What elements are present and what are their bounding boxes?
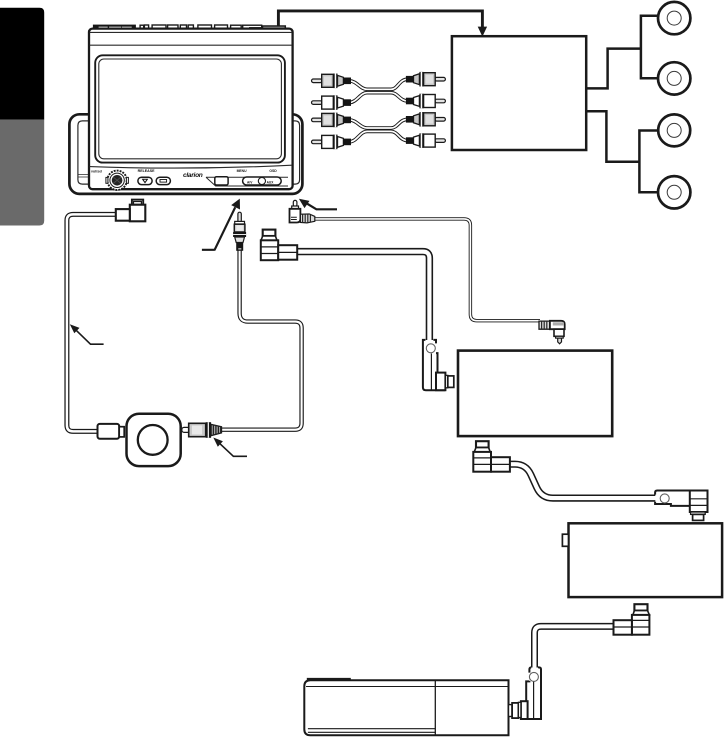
remote eye cable left (67, 214, 117, 431)
sleeve inner line right ear (292, 121, 300, 184)
head unit top cap lines (90, 32, 292, 45)
vesa connector at box4 (518, 667, 541, 719)
box3 left tab (562, 534, 568, 546)
head unit top inner rect detail (250, 28, 261, 31)
aux cable remote to head unit (220, 249, 302, 430)
RCA cable pair 1 wires (349, 79, 408, 102)
wire head-unit to amplifier (278, 11, 482, 28)
right panel outline (206, 177, 288, 186)
speaker rear-right (658, 176, 690, 208)
hideaway box4 (304, 679, 508, 735)
arrow to ccd input (299, 199, 337, 210)
connector ccd-plug top (116, 200, 146, 222)
camera right-angle mini plug (539, 321, 565, 344)
cable mini-plug to camera-plug (315, 219, 541, 321)
remote unit left plug (98, 424, 125, 439)
cenet plug near head unit (261, 230, 297, 261)
RCA plug L3 gray (312, 113, 352, 128)
RCA plug R3 gray (406, 112, 446, 127)
remote unit right rca plug (182, 422, 222, 438)
screen bezel (95, 55, 285, 162)
amplifier box (452, 36, 586, 150)
cenet cable head unit to box2 (296, 252, 429, 341)
RCA plug L1 gray (312, 74, 352, 89)
mounting sleeve (69, 114, 302, 194)
arrow to remote cable (70, 324, 104, 344)
volume knob (106, 171, 128, 190)
arrow to aux input (202, 199, 240, 251)
cenet plug below box3 (614, 604, 650, 635)
head unit top button row (140, 25, 262, 29)
svg-text:vol/sel: vol/sel (91, 170, 102, 174)
speaker wire rear pair (585, 111, 658, 192)
svg-text:RELEASE: RELEASE (138, 169, 156, 173)
svg-text:AUX: AUX (267, 180, 275, 184)
page tab gray (0, 120, 44, 226)
tv tuner box2 (458, 351, 612, 437)
speaker rear-left (658, 114, 690, 146)
button av-aux (243, 177, 282, 185)
head unit top right gray block (263, 26, 286, 31)
mini plug vertical (290, 200, 315, 223)
sleeve inner line left ear (78, 121, 90, 184)
cable box2 to box3 (510, 464, 657, 498)
page tab black (0, 8, 44, 120)
screen inner (99, 59, 282, 159)
control bar arc (90, 165, 292, 168)
speaker front-right (658, 62, 690, 94)
RCA plug R2 white (406, 94, 446, 109)
head unit top buttons block left (93, 25, 136, 31)
cable box4 to box3 (535, 626, 615, 667)
svg-text:OSD: OSD (269, 169, 277, 173)
RCA cable pair 2 wires (349, 119, 408, 142)
button tilt (156, 177, 170, 184)
RCA plug R4 white (406, 133, 446, 148)
button source (215, 177, 228, 185)
RCA plug L4 white (312, 135, 352, 150)
svg-text:clarion: clarion (183, 172, 203, 179)
speaker wire front pair (585, 16, 658, 89)
aux rca plug vertical (233, 212, 246, 251)
svg-text:MENU: MENU (237, 169, 248, 173)
remote eye unit (127, 414, 181, 466)
box4 output jack (509, 703, 519, 718)
vesa connector into box3 (655, 491, 707, 521)
vesa connector into box2 (423, 340, 454, 390)
RCA plug R1 gray (406, 72, 446, 87)
svg-text:A/V: A/V (247, 180, 253, 184)
sleeve left ear detail lines (79, 175, 91, 177)
speaker front-left (658, 2, 690, 34)
RCA plug L2 white (312, 95, 352, 110)
button release (138, 177, 152, 184)
arrow to remote right plug (213, 438, 247, 457)
cenet plug below box2 (473, 441, 510, 472)
head unit body (89, 29, 293, 190)
vtr box3 (569, 523, 723, 597)
remote eye lens (138, 425, 168, 455)
